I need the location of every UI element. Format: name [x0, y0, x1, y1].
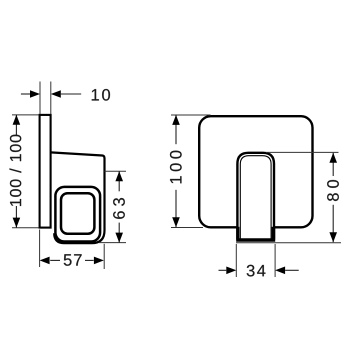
dimension 100/100 label — [10, 135, 22, 206]
dimension 100 front extension lines — [171, 115, 211, 228]
dimension 100/100 line and arrows — [13, 115, 21, 228]
dimension 34 label — [247, 265, 266, 277]
dimension 100 front line and arrows — [172, 115, 180, 227]
dimension 57 label — [64, 254, 82, 266]
side view handle arm — [51, 152, 105, 243]
dimension 100/100 extension lines — [12, 115, 39, 228]
front view handle outer contour — [237, 153, 274, 241]
dimension 63 extension lines — [99, 171, 126, 242]
dimension 80 line and arrows — [329, 153, 337, 242]
dimension 100 front label — [170, 151, 182, 184]
front view handle bottom edge — [236, 227, 275, 240]
dimension 10 extension lines — [40, 82, 51, 115]
front view escutcheon plate — [199, 116, 312, 227]
dimension 57 line and arrows — [40, 257, 104, 265]
side view handle loop outer — [55, 187, 100, 242]
dimension 80 label — [327, 180, 339, 201]
front view handle inner contour — [240, 156, 271, 240]
dimension 57 extension lines — [40, 230, 105, 270]
dimension 63 line and arrows — [115, 171, 123, 242]
dimension 80 extension lines — [236, 152, 341, 242]
dimension 34 line and arrows — [219, 267, 299, 275]
side view handle loop inner hole — [61, 193, 94, 234]
dimension 63 label — [113, 198, 125, 219]
dimension 34 extension lines — [236, 244, 275, 277]
side view wall plate — [40, 115, 51, 228]
dimension 10 label — [92, 89, 110, 101]
dimension 10 leader and arrows — [21, 90, 81, 98]
